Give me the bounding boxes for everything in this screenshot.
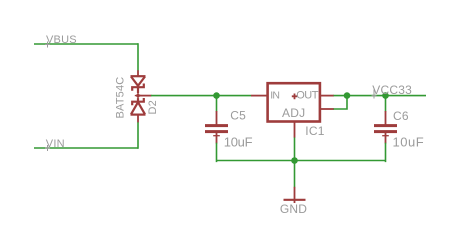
IC1 regulator box: [268, 83, 320, 121]
svg-text:VBUS: VBUS: [46, 34, 77, 46]
wire VIN horizontal: [34, 147, 138, 149]
svg-text:10uF: 10uF: [224, 134, 253, 149]
capacitor C5: [205, 111, 228, 144]
junction at GND: [291, 157, 298, 164]
wire VIN vertical: [137, 122, 139, 149]
net label VCC33: [372, 83, 413, 99]
svg-text:IN: IN: [270, 90, 279, 102]
svg-text:ADJ: ADJ: [282, 106, 305, 120]
svg-text:C5: C5: [230, 109, 246, 123]
diode D2 top pin: [137, 70, 139, 75]
svg-text:C6: C6: [393, 109, 409, 123]
wire GND stem: [294, 161, 296, 188]
diode D2 top (anode top, cathode bar bottom): [131, 76, 146, 93]
svg-text:BAT54C: BAT54C: [115, 77, 127, 119]
svg-text:OUT: OUT: [296, 90, 319, 102]
pin GND stub (bottom): [294, 123, 296, 138]
wire OUT to VCC33: [334, 95, 427, 97]
bottom rail wire: [217, 160, 386, 162]
svg-text:VCC33: VCC33: [372, 83, 412, 97]
wire C6 top: [385, 96, 387, 112]
junction OUT: [344, 92, 351, 99]
diode D2 center junction pin: [135, 93, 152, 99]
svg-text:IC1: IC1: [305, 124, 324, 138]
wire C5 top: [216, 96, 218, 112]
origin cross IC1: [292, 94, 297, 100]
svg-text:10uF: 10uF: [393, 135, 425, 150]
diode D2 bottom (cathode bar top, anode bottom): [131, 98, 146, 115]
wire net N$1 (diode to IN): [151, 95, 251, 97]
wire VBUS horizontal: [34, 43, 138, 45]
wire OUT2 loop: [334, 96, 348, 109]
wire C5 bottom: [216, 143, 219, 162]
net label VIN: [45, 138, 65, 151]
svg-text:GND: GND: [280, 202, 307, 216]
wire VBUS vertical: [137, 43, 139, 70]
pin OUT2 stub: [321, 108, 334, 110]
pin IN stub: [251, 95, 267, 97]
pin OUT stub: [321, 95, 334, 97]
net label VBUS: [45, 34, 77, 48]
capacitor C6: [374, 111, 397, 144]
junction C6: [382, 92, 389, 99]
ground symbol: [284, 187, 306, 203]
wire C6 bottom: [384, 143, 387, 162]
junction at C5: [213, 92, 220, 99]
diode D2 bottom pin: [137, 115, 139, 122]
svg-text:D2: D2: [147, 100, 159, 114]
wire ADJ pin down: [294, 137, 296, 161]
